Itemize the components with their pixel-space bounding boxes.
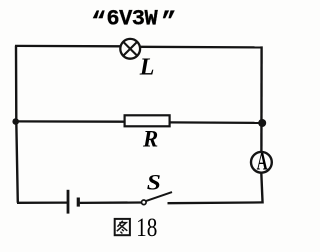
svg-text:“: “ bbox=[91, 8, 106, 37]
svg-text:S: S bbox=[147, 171, 161, 195]
svg-text:L: L bbox=[139, 54, 155, 80]
svg-text:A: A bbox=[257, 146, 269, 175]
svg-text:18: 18 bbox=[136, 214, 157, 243]
svg-text:R: R bbox=[142, 127, 158, 152]
svg-text:”: ” bbox=[161, 8, 176, 37]
svg-text:6V3W: 6V3W bbox=[106, 7, 158, 32]
